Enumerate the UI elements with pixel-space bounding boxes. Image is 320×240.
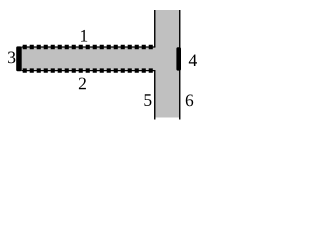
vertical slab fill (155, 10, 180, 118)
horizontal slab bottom border line (22, 70, 156, 72)
label 5 (144, 94, 151, 106)
label 4 (189, 55, 197, 67)
horizontal slab bottom border stitches (23, 68, 156, 72)
label 3 (8, 52, 15, 64)
horizontal slab fill (22, 47, 156, 71)
horizontal slab top border stitches (23, 45, 156, 49)
vertical slab right edge wire (179, 10, 181, 120)
left end cap electrode (surface 3) (16, 46, 22, 71)
label 2 (79, 78, 86, 90)
right electrode mark on slab edge (surface 4) (176, 47, 181, 70)
vertical slab left edge wire (154, 10, 156, 120)
label 1 (81, 30, 87, 42)
label 6 (186, 95, 193, 107)
horizontal slab top border line (22, 46, 156, 48)
